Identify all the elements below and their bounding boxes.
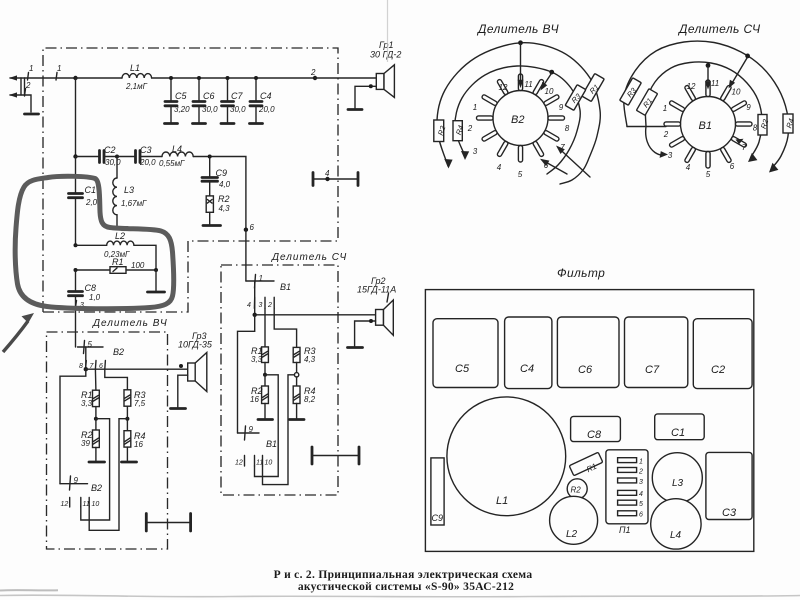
svg-text:8: 8 <box>753 124 758 133</box>
svg-text:11: 11 <box>524 80 532 89</box>
B2 outer resistor track arc <box>437 43 600 184</box>
svg-text:С9: С9 <box>432 513 444 523</box>
wire rail from node1 down <box>75 78 77 157</box>
svg-text:12: 12 <box>235 460 243 467</box>
wire node1 to L1 <box>76 77 123 79</box>
svg-text:6: 6 <box>250 223 255 232</box>
svg-text:100: 100 <box>131 261 145 270</box>
svg-text:В2: В2 <box>113 347 124 357</box>
svg-text:39: 39 <box>81 439 90 448</box>
filter title <box>557 266 605 280</box>
wire contact8 down to left rail <box>60 369 86 484</box>
caption line 1 <box>274 569 533 581</box>
wire contact4 down to left rail <box>238 315 255 433</box>
wire contact2 to R3 of B1 <box>274 308 296 347</box>
svg-text:20,0: 20,0 <box>139 158 156 167</box>
svg-text:R4: R4 <box>454 124 466 136</box>
wire L4 to corner, down to node 6 <box>193 157 246 230</box>
contact ticks 8 7 6 of B2 <box>79 361 105 371</box>
svg-text:R2: R2 <box>218 194 230 204</box>
connector X1 twin vertical lines <box>21 78 25 95</box>
svg-text:11: 11 <box>256 460 263 467</box>
ground bar under R2 of B2 <box>89 461 105 464</box>
svg-text:Р и с. 2. Принципиальная элект: Р и с. 2. Принципиальная электрическая с… <box>274 569 533 581</box>
svg-text:2: 2 <box>267 302 272 309</box>
B2 middle resistor track arc <box>455 66 580 174</box>
svg-text:8,2: 8,2 <box>304 395 316 404</box>
svg-text:8: 8 <box>565 124 570 133</box>
svg-text:5: 5 <box>88 340 93 349</box>
svg-text:С3: С3 <box>722 507 737 519</box>
wire input line 2 with left arrow <box>9 92 31 112</box>
svg-text:4: 4 <box>325 169 330 178</box>
pin tick 2 <box>25 81 32 96</box>
wire contact8 to speaker Gr3 <box>86 364 188 369</box>
filter cap C4 <box>505 317 552 389</box>
node 6 <box>244 223 255 232</box>
resistor R4 box on B2 middle arc <box>453 121 465 141</box>
svg-text:6: 6 <box>639 512 643 519</box>
svg-text:1: 1 <box>29 64 33 73</box>
junction at C9 tap <box>208 155 212 159</box>
svg-text:10: 10 <box>732 88 741 97</box>
svg-text:С4: С4 <box>520 363 534 375</box>
svg-text:R2: R2 <box>436 124 448 137</box>
filter cap C2 <box>693 319 752 389</box>
label B1 bottom <box>266 439 277 449</box>
svg-text:С5: С5 <box>455 363 470 375</box>
wire node6 down to terminal 1 <box>245 230 247 281</box>
svg-text:С7: С7 <box>645 364 660 376</box>
H-bar element near SCh box <box>312 447 359 464</box>
ground under Gr1 <box>348 108 362 111</box>
svg-text:C1: C1 <box>85 185 97 195</box>
svg-text:1: 1 <box>259 274 263 283</box>
inductor L2 <box>76 231 157 270</box>
label B1 top <box>280 282 291 292</box>
svg-text:6: 6 <box>730 162 735 171</box>
wire Gr1 second terminal to ground <box>355 84 376 108</box>
svg-text:11: 11 <box>711 79 719 88</box>
label Delitel SCh <box>271 252 347 263</box>
svg-text:4: 4 <box>247 302 251 309</box>
B1 wiper curl from track line into lug 3 <box>646 127 668 158</box>
svg-text:12: 12 <box>499 83 508 92</box>
filter cap C6 <box>557 317 619 388</box>
svg-text:2: 2 <box>467 124 473 133</box>
wire node 2 to speaker Gr1 <box>315 77 376 79</box>
label Delitel VCh <box>92 318 168 329</box>
svg-text:L2: L2 <box>566 529 578 540</box>
svg-text:30 ГД-2: 30 ГД-2 <box>370 50 401 60</box>
wire input line 1 with left arrow <box>9 75 75 80</box>
resistor R2 box on B1 inner arc (right) <box>758 115 771 136</box>
H-bar element near VCh box <box>146 514 190 532</box>
terminal 1 of B1 <box>246 274 274 288</box>
caption line 2 <box>298 581 514 593</box>
B1 lugs (12 contacts) <box>664 80 752 168</box>
junction R1-R2 <box>81 407 110 520</box>
filter cap C1 <box>655 414 705 440</box>
filter connector P1 <box>606 450 648 535</box>
node 2 <box>310 68 317 80</box>
B1 lug pin numbers <box>663 79 758 179</box>
svg-text:В1: В1 <box>280 282 291 292</box>
junction R3-R4 of B1 (open node) <box>263 363 299 485</box>
capacitor C6 <box>193 76 219 124</box>
svg-text:C2: C2 <box>104 145 116 155</box>
B1 wiper mark at lug 7 <box>736 139 744 145</box>
svg-text:R4: R4 <box>784 117 796 129</box>
svg-text:7: 7 <box>742 143 747 152</box>
ground bar under R2 of B1 <box>258 418 273 421</box>
contact ticks 12 11 10 of B2 bottom <box>61 498 100 509</box>
capacitor C1 <box>69 157 98 246</box>
inductor L3 (vertical) <box>113 157 147 227</box>
filter coil L2 <box>550 496 598 544</box>
svg-text:акустической системы «S-90» 35: акустической системы «S-90» 35АС-212 <box>298 581 514 593</box>
svg-text:9: 9 <box>746 103 751 112</box>
svg-text:2: 2 <box>310 68 316 77</box>
svg-text:L3: L3 <box>124 185 134 195</box>
svg-text:15ГД-11А: 15ГД-11А <box>357 285 396 295</box>
svg-text:20,0: 20,0 <box>258 105 275 114</box>
hand-drawn highlight loop <box>15 176 173 308</box>
svg-text:1: 1 <box>473 103 477 112</box>
B2 wiper line to lug 11 with junction dot <box>518 40 524 88</box>
svg-text:9: 9 <box>559 103 564 112</box>
svg-text:12: 12 <box>61 501 69 508</box>
svg-text:4: 4 <box>686 163 691 172</box>
junction R1-R2 of B1 <box>255 363 279 477</box>
svg-text:9: 9 <box>249 425 254 434</box>
svg-text:2: 2 <box>25 81 31 90</box>
B1 wire from lug 2 to tracks <box>627 126 666 128</box>
resistor R2 of B2 divider <box>81 419 99 461</box>
svg-text:R2: R2 <box>759 117 771 130</box>
resistor R1 of B1 divider <box>251 308 268 364</box>
filter resistor R2 <box>567 479 587 499</box>
dashed box Delitel SCh <box>221 265 338 495</box>
resistor R1 (with 100 value) <box>74 257 159 273</box>
svg-text:2,0: 2,0 <box>85 198 98 207</box>
filter coil L1 <box>447 397 566 516</box>
inductor L1 <box>122 63 152 91</box>
svg-text:1,67мГ: 1,67мГ <box>121 199 147 208</box>
svg-text:1: 1 <box>57 64 61 73</box>
resistor R2 box on B2 outer arc <box>434 120 448 142</box>
pin tick 1 (outside border) <box>28 64 34 80</box>
svg-text:L4: L4 <box>172 144 182 154</box>
svg-text:C8: C8 <box>85 283 97 293</box>
resistor R2 of B1 divider <box>250 375 268 418</box>
svg-text:Делитель ВЧ: Делитель ВЧ <box>92 318 168 329</box>
ground bar under R4 of B2 <box>122 461 137 464</box>
ground bar under Gr3 <box>171 407 186 410</box>
resistor R1 of B2 divider <box>81 369 99 408</box>
svg-text:C7: C7 <box>231 91 243 101</box>
svg-text:L3: L3 <box>672 478 684 489</box>
capacitor C2 <box>76 145 122 167</box>
faint scanner page-edge mark bottom <box>0 590 800 597</box>
wire terminal5 to contact row <box>85 347 87 369</box>
capacitor C3 <box>117 145 162 167</box>
dial VCh title <box>476 22 559 36</box>
svg-text:C6: C6 <box>203 91 215 101</box>
svg-text:3: 3 <box>259 302 263 309</box>
svg-text:Делитель СЧ: Делитель СЧ <box>271 252 347 263</box>
svg-text:L2: L2 <box>115 231 125 241</box>
svg-text:Гр1: Гр1 <box>379 40 394 50</box>
switch B1 rotor circle <box>681 97 736 152</box>
svg-text:3: 3 <box>473 147 478 156</box>
filter board outline <box>425 290 753 552</box>
junction dot contact 8 <box>84 367 88 371</box>
filter cap C5 <box>433 319 498 388</box>
svg-text:3,3: 3,3 <box>81 399 93 408</box>
node junction C2-C3 / L3 tap <box>115 155 119 159</box>
svg-text:5: 5 <box>706 170 711 179</box>
svg-text:4: 4 <box>639 491 643 498</box>
svg-text:L1: L1 <box>496 495 508 507</box>
svg-text:7,5: 7,5 <box>134 399 146 408</box>
svg-text:8: 8 <box>79 363 83 370</box>
resistor R4 of B1 divider <box>293 377 315 418</box>
resistor R2 (x-marked) <box>206 194 230 224</box>
inductor L4 <box>159 144 193 168</box>
node junction at C2 row <box>73 154 77 158</box>
filter cap C8 <box>571 416 621 441</box>
svg-text:4: 4 <box>497 163 502 172</box>
svg-text:1: 1 <box>663 104 667 113</box>
label B2 top <box>113 347 124 357</box>
ground bar under Gr2 <box>348 346 363 349</box>
ground bar under R2 <box>203 224 221 227</box>
capacitor C4 <box>250 76 276 124</box>
ground bar under R4 of B1 <box>290 418 305 421</box>
svg-text:В2: В2 <box>91 483 102 493</box>
dial SCh title <box>677 22 761 36</box>
svg-text:3,20: 3,20 <box>174 105 190 114</box>
svg-text:10: 10 <box>545 87 554 96</box>
svg-text:L1: L1 <box>130 63 140 73</box>
svg-text:30,0: 30,0 <box>202 105 218 114</box>
resistor R3 of B1 divider <box>293 346 315 364</box>
resistor R4 box on B1 outer arc (right) <box>783 114 796 133</box>
svg-text:L4: L4 <box>670 530 682 541</box>
terminal 5 of B2 <box>78 340 104 354</box>
svg-text:Фильтр: Фильтр <box>557 266 605 280</box>
resistor R3 box on B1 outer arc (left) <box>620 78 642 106</box>
wire to ground right of R1 <box>155 270 157 291</box>
speaker Gr1 30GD-2 <box>370 40 401 97</box>
outer dash-dot enclosure border <box>43 48 338 312</box>
svg-text:2: 2 <box>663 130 669 139</box>
filter cap C7 <box>625 317 688 388</box>
wire Gr3 second terminal to ground <box>178 375 188 407</box>
resistor R1 box on B2 outer arc (right) <box>582 73 605 101</box>
capacitor C7 <box>221 76 246 124</box>
svg-text:16: 16 <box>134 440 143 449</box>
B1 wiper line to lug 11 with junction dot <box>705 63 711 90</box>
ground bar under L2/R1 <box>148 291 165 294</box>
resistor R1 box on B1 inner arc (left) <box>636 89 657 116</box>
svg-text:C4: C4 <box>260 91 272 101</box>
svg-text:П1: П1 <box>619 525 631 535</box>
ground under input <box>25 113 39 116</box>
hand-drawn arrow pointing at loop <box>3 313 34 352</box>
svg-text:R2: R2 <box>571 486 582 495</box>
svg-text:4,3: 4,3 <box>219 204 231 213</box>
svg-text:C3: C3 <box>140 145 152 155</box>
filter cap C9 strip <box>431 458 444 525</box>
junction R3-R4 <box>89 406 129 530</box>
wire L1 to node 2 <box>152 77 315 79</box>
wire contact4 to speaker Gr2 <box>255 314 376 316</box>
svg-text:Делитель СЧ: Делитель СЧ <box>677 22 761 36</box>
svg-text:С6: С6 <box>578 364 593 376</box>
wire Gr2 second terminal to ground <box>355 319 376 346</box>
svg-text:16: 16 <box>250 395 259 404</box>
svg-text:3: 3 <box>668 151 673 160</box>
svg-text:11: 11 <box>83 501 90 508</box>
svg-text:C5: C5 <box>175 91 187 101</box>
svg-text:10ГД-35: 10ГД-35 <box>178 340 213 350</box>
speaker Gr2 15GD-11A <box>357 276 396 335</box>
contact ticks 12 11 10 of B1 bottom <box>235 456 272 467</box>
svg-text:С2: С2 <box>711 364 725 376</box>
svg-text:5: 5 <box>518 170 523 179</box>
svg-text:4,3: 4,3 <box>304 355 316 364</box>
svg-text:2: 2 <box>638 468 643 475</box>
wire contact6 to R3 <box>105 369 128 390</box>
svg-text:4,0: 4,0 <box>219 180 231 189</box>
svg-text:Делитель ВЧ: Делитель ВЧ <box>476 22 559 36</box>
filter resistor R1 <box>569 452 603 475</box>
faint scan fold line near Gr1 <box>387 0 389 62</box>
B1 inner resistor track arc <box>645 62 762 162</box>
svg-text:В1: В1 <box>266 439 277 449</box>
wire terminal1 down to contact row <box>254 281 256 315</box>
svg-text:C9: C9 <box>216 168 228 178</box>
B2 lugs (12 contacts) <box>477 74 565 162</box>
ground bar under L3 <box>110 226 128 229</box>
junction L2 left <box>74 243 78 247</box>
pin tick 3 under C8 <box>76 301 85 310</box>
svg-text:30,0: 30,0 <box>105 158 121 167</box>
svg-text:12: 12 <box>687 82 696 91</box>
svg-text:В1: В1 <box>699 120 712 132</box>
capacitor C5 <box>165 76 191 124</box>
contact ticks 4 3 2 of B1 <box>247 297 274 309</box>
pin tick 1 (inside border) <box>56 64 61 80</box>
label B2 bottom <box>91 483 102 493</box>
svg-text:10: 10 <box>92 501 100 508</box>
svg-text:1: 1 <box>639 459 643 466</box>
svg-text:В2: В2 <box>511 114 524 126</box>
svg-text:С8: С8 <box>587 429 602 441</box>
capacitor C8 <box>69 270 101 347</box>
B1 outer resistor track arc <box>624 41 789 172</box>
svg-text:3,3: 3,3 <box>251 355 263 364</box>
svg-text:R1: R1 <box>112 257 124 267</box>
junction dot contact 4 <box>253 313 257 317</box>
resistor R4 of B2 divider <box>124 419 146 461</box>
svg-text:5: 5 <box>639 501 643 508</box>
node 1 junction <box>73 76 77 80</box>
B2 lug pin numbers <box>467 80 570 179</box>
filter cap C3 <box>706 452 752 519</box>
speaker Gr3 10GD-35 <box>178 331 213 392</box>
svg-text:С1: С1 <box>671 427 685 439</box>
resistor R3 of B2 divider <box>124 390 146 408</box>
capacitor C9 <box>202 157 231 196</box>
switch B2 rotor circle <box>493 91 548 146</box>
terminal 4 bar (upper) <box>313 169 358 186</box>
terminal 9 bar of B1 <box>238 425 260 440</box>
B1 wiper line to lug 10 with junction dot <box>729 54 750 89</box>
B2 wiper line to lug 10 with junction dot <box>541 70 555 91</box>
dashed box Delitel VCh <box>47 332 168 549</box>
filter coil L4 <box>651 499 701 549</box>
resistor R3 box on B2 middle arc (right) <box>565 85 586 111</box>
svg-text:10: 10 <box>265 460 273 467</box>
terminal 9 bar of B2 <box>60 476 88 490</box>
filter coil L3 <box>652 453 702 503</box>
svg-text:3: 3 <box>639 479 643 486</box>
svg-text:2,1мГ: 2,1мГ <box>125 82 148 91</box>
svg-text:9: 9 <box>74 476 79 485</box>
svg-text:30,0: 30,0 <box>230 105 246 114</box>
svg-text:0,55мГ: 0,55мГ <box>159 159 185 168</box>
svg-text:1,0: 1,0 <box>89 293 101 302</box>
